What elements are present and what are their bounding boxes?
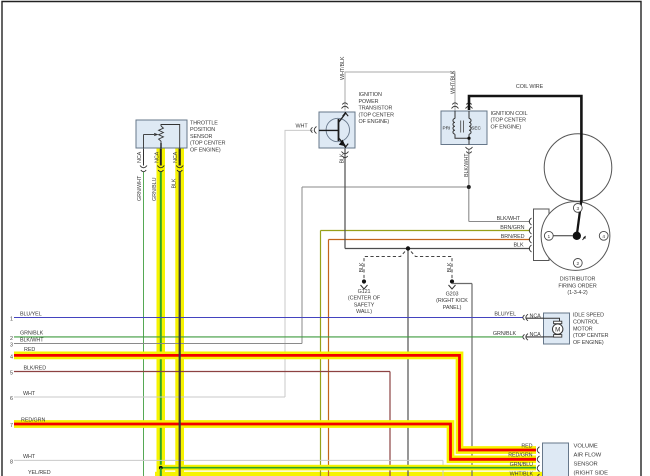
svg-text:WHT: WHT: [23, 391, 36, 397]
ignition coil box: [441, 111, 487, 145]
svg-text:OF ENGINE): OF ENGINE): [359, 119, 390, 125]
idle speed control motor box: [544, 313, 570, 344]
svg-text:NCA: NCA: [137, 151, 143, 163]
svg-text:BLK: BLK: [359, 262, 365, 272]
label WHT/BLK (right vertical): [450, 70, 456, 94]
svg-text:BLK: BLK: [339, 153, 345, 163]
svg-text:(CENTER OF: (CENTER OF: [348, 296, 381, 302]
svg-text:IGNITION COIL: IGNITION COIL: [491, 111, 528, 117]
distributor terminal 1: [544, 231, 553, 240]
wire BLK/WHT vertical segment (to wire 3): [301, 187, 303, 344]
wire BLK vertical segment (from ground junction down): [407, 249, 409, 476]
label BLK (G121 branch): [359, 262, 365, 272]
svg-text:NCA: NCA: [530, 313, 542, 319]
chevrons above/below transistor: [311, 103, 349, 158]
distributor body circle: [541, 202, 610, 271]
svg-text:PANEL): PANEL): [443, 305, 462, 311]
distributor caption: [558, 276, 596, 296]
wire GRN/BLU core (vertical): [160, 148, 162, 476]
label BLK (transistor emitter): [339, 153, 345, 163]
left wire number 8 and label WHT: [10, 454, 36, 466]
svg-text:PRI: PRI: [443, 126, 451, 131]
wire 5 BLK/RED horizontal: [14, 371, 390, 373]
wire 6 WHT horizontal: [14, 396, 285, 398]
label YEL/RED: [28, 470, 51, 476]
svg-text:GRN/BLK: GRN/BLK: [20, 331, 44, 337]
svg-text:DISTRIBUTOR: DISTRIBUTOR: [560, 276, 596, 282]
distributor rotor wire end: [553, 200, 586, 240]
svg-text:WHT: WHT: [296, 124, 309, 130]
left wire number 1 and label BLU/YEL: [10, 312, 42, 323]
ground G121: [348, 279, 381, 315]
svg-text:BLK: BLK: [172, 178, 178, 188]
svg-text:(RIGHT SIDE: (RIGHT SIDE: [574, 471, 609, 476]
wire GRN/BLU highlight band (vertical from TPS): [157, 148, 166, 476]
svg-text:RED: RED: [24, 347, 35, 353]
svg-text:4: 4: [10, 355, 13, 361]
wire 7 RED/GRN (highlighted): [14, 424, 536, 459]
svg-text:COIL WIRE: COIL WIRE: [516, 84, 544, 90]
wire BLK core continues (over crossings): [179, 148, 181, 476]
svg-text:OF ENGINE): OF ENGINE): [491, 124, 522, 130]
wire BRN/RED vertical segment: [328, 240, 330, 476]
ISC motor label: [573, 313, 609, 347]
svg-text:(1-3-4-2): (1-3-4-2): [567, 290, 588, 296]
svg-text:NCA: NCA: [154, 151, 160, 163]
label BLU/YEL (right) + NCA + chevron: [494, 312, 543, 321]
wire 8 WHT horizontal: [14, 459, 443, 461]
coil label: [491, 111, 528, 130]
svg-text:(TOP CENTER: (TOP CENTER: [573, 333, 609, 339]
left wire number 4 and label RED: [10, 347, 35, 361]
svg-text:WHT: WHT: [23, 454, 36, 460]
wire 2 GRN/BLK horizontal: [14, 336, 523, 338]
wire BLK horizontal (transistor emitter to distributor): [345, 148, 530, 249]
svg-text:1: 1: [10, 317, 13, 323]
wire BLK/RED vertical segment: [389, 372, 391, 476]
svg-text:NCA: NCA: [173, 151, 179, 163]
wire BRN/GRN horizontal (to distributor): [321, 230, 531, 232]
distributor cap top circle: [544, 134, 612, 202]
svg-text:VOLUME: VOLUME: [574, 444, 598, 450]
ground G203: [436, 279, 472, 311]
svg-text:RED/GRN: RED/GRN: [508, 453, 532, 459]
left wire number 5 and label BLK/RED: [10, 365, 46, 376]
svg-text:GRN/BLU: GRN/BLU: [510, 462, 534, 468]
svg-text:GRN/BLK: GRN/BLK: [493, 331, 517, 337]
TPS label: [190, 121, 226, 154]
label WHT (transistor base): [296, 124, 309, 130]
svg-text:AIR FLOW: AIR FLOW: [574, 453, 602, 459]
svg-text:G203: G203: [446, 291, 459, 297]
distributor terminal 3: [573, 204, 582, 213]
svg-text:BRN/GRN: BRN/GRN: [500, 225, 524, 231]
svg-text:POSITION: POSITION: [190, 127, 215, 133]
svg-text:OF ENGINE): OF ENGINE): [190, 147, 221, 153]
chevrons at distributor bracket: [529, 218, 531, 252]
coil wire (thick): [469, 96, 581, 233]
svg-text:IDLE SPEED: IDLE SPEED: [573, 313, 604, 319]
svg-text:YEL/RED: YEL/RED: [28, 470, 51, 476]
throttle position sensor box: [136, 120, 187, 148]
svg-text:8: 8: [10, 460, 13, 466]
wire BRN/GRN vertical segment: [320, 231, 322, 476]
label BLK (G203 branch): [447, 262, 453, 272]
svg-text:IGNITION: IGNITION: [359, 92, 383, 98]
label BRN/GRN: [500, 225, 524, 231]
wire GRN/BLU horizontal (to VAF sensor, highlighted): [158, 465, 536, 471]
volume air flow sensor box: [543, 443, 569, 476]
svg-text:BLK/WHT: BLK/WHT: [497, 216, 521, 222]
svg-text:2: 2: [576, 261, 579, 267]
svg-text:WHT/BLK: WHT/BLK: [340, 56, 346, 80]
svg-text:BLU/YEL: BLU/YEL: [20, 312, 42, 318]
svg-text:1: 1: [547, 234, 550, 240]
distributor bracket: [534, 209, 550, 261]
wire BRN/RED horizontal (to distributor): [329, 239, 531, 241]
label WHT/BLK (left vertical): [340, 56, 346, 80]
svg-text:GRN/BLU: GRN/BLU: [152, 177, 158, 201]
svg-text:SENSOR: SENSOR: [190, 134, 212, 140]
svg-text:BLK/WHT: BLK/WHT: [20, 338, 44, 344]
wire GRN/WHT (vertical from TPS): [143, 148, 145, 476]
wire WHT vertical segment (transistor base to wire 6): [285, 130, 314, 397]
svg-text:3: 3: [10, 343, 13, 349]
svg-text:7: 7: [10, 423, 13, 429]
VAF wire labels + chevrons: [508, 444, 539, 476]
label GRN/BLK (right) + NCA + chevron: [493, 331, 544, 340]
left wire number 2 and label GRN/BLK: [10, 331, 44, 342]
potentiometer (inside TPS): [144, 125, 180, 149]
svg-text:5: 5: [10, 371, 13, 377]
svg-text:BLK: BLK: [447, 262, 453, 272]
svg-text:WALL): WALL): [356, 309, 372, 315]
svg-text:CONTROL: CONTROL: [573, 319, 599, 325]
left wire number 7 and label RED/GRN: [10, 417, 45, 429]
wire 1 BLU/YEL horizontal: [14, 317, 523, 319]
svg-text:MOTOR: MOTOR: [573, 326, 593, 332]
NCA labels at TPS: [137, 151, 179, 163]
svg-text:BLK: BLK: [514, 243, 524, 249]
motor M symbol: [544, 318, 563, 337]
label BLK/WHT (to distributor): [497, 216, 521, 222]
svg-text:POWER: POWER: [359, 99, 379, 105]
dashed ground branch to G203: [411, 252, 452, 280]
svg-text:WHT/BLK: WHT/BLK: [450, 70, 456, 94]
label BLK: [514, 243, 524, 249]
label BRN/RED: [501, 234, 525, 240]
svg-text:(TOP CENTER: (TOP CENTER: [190, 141, 226, 147]
svg-text:(TOP CENTER: (TOP CENTER: [359, 112, 395, 118]
svg-text:4: 4: [602, 234, 605, 240]
svg-text:2: 2: [10, 336, 13, 342]
svg-text:3: 3: [576, 206, 579, 212]
wire WHT vertical segment (wire 8 down): [442, 460, 444, 476]
chevrons at coil: [452, 103, 473, 153]
wire WHT/BLK (transistor top to coil): [345, 72, 455, 111]
svg-text:BRN/RED: BRN/RED: [501, 234, 525, 240]
left wire number 3 and label BLK/WHT: [10, 338, 44, 349]
svg-text:SENSOR: SENSOR: [574, 462, 598, 468]
svg-text:G121: G121: [358, 289, 371, 295]
svg-text:(RIGHT KICK: (RIGHT KICK: [436, 298, 468, 304]
label BLK/WHT (below coil): [464, 153, 470, 177]
wire BLK vertical segment (from G203 down): [471, 284, 473, 476]
svg-text:OF ENGINE): OF ENGINE): [573, 340, 604, 346]
svg-text:SEC: SEC: [471, 126, 481, 131]
svg-text:THROTTLE: THROTTLE: [190, 121, 218, 127]
ignition coil windings: [443, 111, 482, 145]
svg-text:BLK/WHT: BLK/WHT: [464, 153, 470, 177]
transistor label: [359, 92, 395, 125]
wire BLK highlight band (vertical from TPS): [175, 148, 184, 476]
label COIL WIRE: [516, 84, 544, 90]
left wire number 6 and label WHT: [10, 391, 36, 402]
svg-text:FIRING ORDER: FIRING ORDER: [558, 283, 596, 289]
wire BLK/WHT (coil bottom to distributor): [302, 150, 530, 222]
svg-text:(TOP CENTER: (TOP CENTER: [491, 118, 527, 124]
svg-text:WHT/BLK: WHT/BLK: [510, 472, 534, 476]
svg-text:RED/GRN: RED/GRN: [21, 417, 45, 423]
svg-text:GRN/WHT: GRN/WHT: [137, 175, 143, 201]
wire name labels at TPS: [137, 175, 178, 201]
distributor terminal 2: [573, 259, 582, 268]
svg-text:SAFETY: SAFETY: [354, 302, 375, 308]
wire 3 BLK/WHT horizontal: [14, 343, 302, 345]
ground junction node: [406, 246, 410, 250]
svg-text:BLK/RED: BLK/RED: [24, 365, 47, 371]
svg-text:RED: RED: [521, 444, 532, 450]
connector chevrons on TPS wires: [140, 166, 183, 172]
svg-text:TRANSISTOR: TRANSISTOR: [359, 106, 393, 112]
wire 4 RED (highlighted): [14, 355, 536, 450]
transistor Q (NPN symbol): [319, 112, 349, 148]
svg-text:6: 6: [10, 396, 13, 402]
dashed ground branch to G121: [364, 252, 405, 280]
ignition power transistor box: [319, 112, 355, 148]
node: GRN/BLU junction continues down: [160, 468, 162, 476]
svg-text:NCA: NCA: [530, 332, 542, 338]
wire YEL/RED highlight band (bottom): [155, 472, 542, 476]
VAF sensor label: [574, 444, 609, 476]
svg-text:BLU/YEL: BLU/YEL: [494, 312, 516, 318]
svg-text:M: M: [555, 326, 560, 333]
distributor terminal 4: [599, 231, 608, 240]
